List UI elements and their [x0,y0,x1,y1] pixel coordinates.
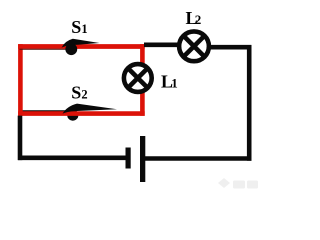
wire: red left vertical edge (node P to node Q) [18,44,23,116]
switch S1 blade [62,39,100,48]
wire: black horizontal from lamp L2 to top right corner [200,45,251,50]
switch S1 pivot dot [65,43,77,55]
wire: black top right horizontal from node R to lamp L2 [144,42,186,47]
svg-text:L2: L2 [186,8,202,28]
battery positive terminal (long thick bar) [140,136,145,182]
lamp L1 [124,64,152,92]
wire: black right vertical edge [247,45,252,161]
wire: red bottom conductor [18,111,145,116]
wire: red right vertical branch through L1 (node R to node T) [140,44,145,116]
wire: black bottom right horizontal (battery + to right corner) [144,156,252,161]
watermark (faint) [218,178,258,189]
wire: top red horizontal (node Q to node R, through S1) [18,44,145,49]
lamp L2 [179,31,209,61]
wire: black bottom left horizontal (left corner to battery -) [18,156,127,161]
battery negative terminal (short thick bar) [126,148,131,169]
svg-text:L1: L1 [161,71,178,91]
switch S2 blade [63,104,118,114]
switch S2 pivot dot [67,110,78,121]
wire: dark under-edge of top red wire near left corner [20,48,67,50]
wire: bottom red horizontal (node P to node T, through S2) [18,104,145,121]
wire: black segment over bottom wire left of S2 [22,110,70,114]
wire: black left lower vertical (node P down to bottom wire) [18,116,23,161]
svg-text:S2: S2 [71,83,87,103]
svg-text:S1: S1 [71,17,87,37]
